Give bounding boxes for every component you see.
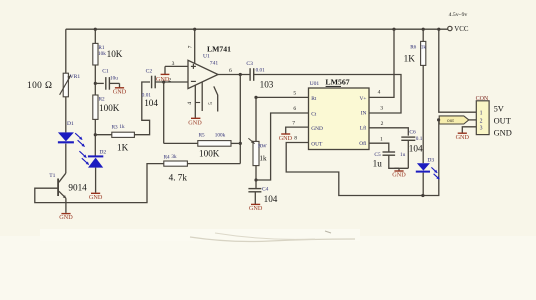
svg-text:7: 7 xyxy=(188,45,194,48)
svg-text:3: 3 xyxy=(172,61,175,67)
value 9014 xyxy=(68,183,87,193)
wire RW top xyxy=(255,97,257,141)
label pin 4 of LM567 xyxy=(378,90,381,96)
junction at RW top xyxy=(254,96,257,99)
IC U01 LM567 body xyxy=(309,88,370,150)
value 100 Ohm xyxy=(27,81,52,91)
pin name IN xyxy=(361,110,367,116)
wire LM567 OUT routing xyxy=(286,122,439,196)
label R5 100k xyxy=(199,133,226,139)
connector pin 2 xyxy=(480,118,483,124)
junction on rail at LM567 V+ drop xyxy=(392,28,395,31)
junction on rail at connector 5V drop xyxy=(437,28,440,31)
label C3 xyxy=(246,61,253,67)
value 1K of R6 xyxy=(404,54,416,64)
wire to C1 xyxy=(95,82,104,84)
svg-text:4. 7k: 4. 7k xyxy=(169,172,188,182)
ground at C4 xyxy=(249,204,263,212)
connector pin 1 xyxy=(480,111,483,117)
svg-text:VCC: VCC xyxy=(454,26,469,33)
ground at op-amp pin 3 xyxy=(156,74,170,82)
potentiometer VR1 xyxy=(60,73,71,97)
value 4.7k xyxy=(169,172,188,182)
wire R6 to D3 xyxy=(422,65,424,163)
junction at R3 tap xyxy=(94,133,97,136)
svg-text:3: 3 xyxy=(480,126,483,132)
svg-text:GND: GND xyxy=(59,214,73,221)
label pin 8 of LM567 xyxy=(294,135,297,141)
svg-text:C3: C3 xyxy=(246,61,253,67)
value 0.1 of C6 xyxy=(416,136,423,142)
svg-text:CON: CON xyxy=(476,96,489,102)
svg-text:OUT: OUT xyxy=(494,116,511,125)
svg-text:10u: 10u xyxy=(110,75,118,81)
svg-text:103: 103 xyxy=(260,79,274,89)
ground at op-amp pin 4 xyxy=(188,118,202,126)
svg-text:4.5v~9v: 4.5v~9v xyxy=(449,12,468,18)
label 5V xyxy=(494,104,504,113)
LED D3 xyxy=(416,163,430,171)
svg-text:VR1: VR1 xyxy=(70,74,81,80)
svg-text:R4: R4 xyxy=(164,155,170,161)
wire R3 left lead xyxy=(95,134,112,136)
value 1u of C5 xyxy=(373,158,383,168)
value 0.01 of C2 xyxy=(142,92,151,98)
label CON xyxy=(476,96,489,102)
pin name V+ xyxy=(359,96,366,102)
ground at C5 C6 joint xyxy=(392,168,406,178)
label 4.5v~9v xyxy=(449,12,468,18)
svg-text:D1: D1 xyxy=(67,121,74,127)
svg-text:2: 2 xyxy=(381,121,384,127)
label R4 3k xyxy=(164,154,177,160)
value 100K of R5 xyxy=(199,148,220,158)
wire LM567 V+ to rail xyxy=(369,29,394,97)
svg-text:1K: 1K xyxy=(117,143,129,153)
svg-text:LM567: LM567 xyxy=(325,78,349,87)
pin name GND xyxy=(311,126,323,132)
svg-text:C5: C5 xyxy=(374,152,381,158)
svg-text:5V: 5V xyxy=(494,104,504,113)
wire LM567 GND pin xyxy=(286,127,309,134)
value 100K xyxy=(99,103,120,113)
wire op-amp output xyxy=(218,74,250,76)
svg-text:C2: C2 xyxy=(146,69,153,75)
label pin 2 xyxy=(168,77,171,83)
svg-text:100 Ω: 100 Ω xyxy=(27,81,52,91)
ground at C1 xyxy=(113,88,127,96)
svg-text:R6: R6 xyxy=(410,44,416,50)
wire R2 to D2 xyxy=(94,119,96,156)
value 10K xyxy=(107,49,123,59)
svg-text:GND: GND xyxy=(188,119,202,126)
label D3 xyxy=(427,158,434,164)
svg-text:D3: D3 xyxy=(427,158,434,164)
label RW xyxy=(258,143,267,149)
photodiode D2 xyxy=(88,156,103,167)
label D2 xyxy=(99,149,106,155)
svg-text:104: 104 xyxy=(144,98,158,108)
wire Ofl to C5 xyxy=(369,143,389,152)
svg-text:0.01: 0.01 xyxy=(256,67,265,73)
ground at T1 emitter xyxy=(59,214,73,222)
label VR1 xyxy=(70,74,81,80)
svg-text:Lfl: Lfl xyxy=(360,124,367,131)
junction at D3 bottom xyxy=(421,194,424,197)
value 0.01 of C3 xyxy=(256,67,265,73)
wire C5 down to ground joint xyxy=(389,155,409,168)
svg-text:1K: 1K xyxy=(404,54,416,64)
wire R4 right lead xyxy=(187,163,240,165)
value 1u small xyxy=(400,152,406,158)
svg-text:GND: GND xyxy=(392,172,406,179)
svg-text:1k: 1k xyxy=(421,44,427,50)
label C1 xyxy=(102,68,109,74)
wire Rt pin xyxy=(256,96,309,98)
label R1 xyxy=(98,45,104,51)
svg-text:Ct: Ct xyxy=(311,111,317,117)
svg-text:R5: R5 xyxy=(199,133,205,139)
value 103 xyxy=(260,79,274,89)
label C5 xyxy=(374,152,381,158)
wire Ct pin xyxy=(256,113,309,180)
svg-text:OUT: OUT xyxy=(311,142,323,148)
label pin 6 of LM567 xyxy=(293,106,296,112)
label D1 xyxy=(67,121,74,127)
op-amp pin 5 stub xyxy=(214,86,218,111)
label pin 3 of LM567 xyxy=(380,106,383,112)
svg-text:741: 741 xyxy=(210,60,219,66)
svg-text:4: 4 xyxy=(378,90,381,96)
svg-text:V+: V+ xyxy=(359,96,366,102)
svg-text:5: 5 xyxy=(293,90,296,96)
svg-text:Ofl: Ofl xyxy=(359,140,367,147)
svg-text:R3: R3 xyxy=(112,125,118,131)
svg-text:GND: GND xyxy=(494,129,512,138)
svg-text:8: 8 xyxy=(294,135,297,141)
label R2 xyxy=(99,97,105,103)
wire rail to R6 xyxy=(422,29,424,41)
label OUT xyxy=(494,116,511,125)
svg-text:C1: C1 xyxy=(102,68,109,74)
op-amp U1 LM741 xyxy=(188,60,218,88)
label T1 xyxy=(49,173,55,179)
value 104 of C4 xyxy=(264,194,278,204)
op-amp pin 4 to ground xyxy=(195,85,200,118)
svg-text:3: 3 xyxy=(380,106,383,112)
wire VR1 to D1 xyxy=(65,97,67,133)
junction on rail at R6 xyxy=(422,28,425,31)
label pin 6 xyxy=(229,68,232,74)
label U1 xyxy=(203,54,210,60)
svg-text:5: 5 xyxy=(208,102,214,105)
junction at op-amp inverting input xyxy=(162,80,165,83)
resistor R3 xyxy=(112,132,135,137)
net label out arrow xyxy=(439,116,469,124)
svg-text:Rt: Rt xyxy=(311,96,317,102)
svg-text:GND: GND xyxy=(311,126,323,132)
wire R3 to C2 zigzag xyxy=(134,82,150,135)
potentiometer RW xyxy=(248,138,259,165)
svg-text:1: 1 xyxy=(480,111,483,117)
label pin 1 of LM567 xyxy=(380,137,383,143)
svg-text:C4: C4 xyxy=(262,186,269,192)
faint lighter band at bottom xyxy=(0,236,536,300)
svg-text:RW: RW xyxy=(258,143,267,149)
wire C1 to ground xyxy=(109,83,119,87)
capacitor C2 xyxy=(152,76,156,89)
label R6 1k xyxy=(410,44,426,50)
wire C6 down xyxy=(407,140,409,168)
label pin 5 xyxy=(208,102,214,105)
capacitor C4 xyxy=(248,189,261,192)
svg-text:2: 2 xyxy=(480,118,483,124)
wire rail to connector 5V xyxy=(439,29,477,112)
svg-text:6: 6 xyxy=(293,106,296,112)
svg-text:U01: U01 xyxy=(310,81,320,87)
svg-text:R2: R2 xyxy=(99,97,105,103)
resistor R2 xyxy=(93,95,98,119)
wire D1 to T1 collector xyxy=(65,144,67,174)
svg-text:U1: U1 xyxy=(203,54,210,60)
D2 incident arrows xyxy=(79,151,88,164)
pin name Rt xyxy=(311,96,317,102)
svg-text:4: 4 xyxy=(187,102,193,105)
wire connector pin 3 to ground xyxy=(462,127,476,133)
svg-text:C6: C6 xyxy=(409,129,416,135)
svg-text:3k: 3k xyxy=(171,154,177,160)
pin name Lfl xyxy=(360,124,367,131)
label pin 2 of LM567 xyxy=(381,121,384,127)
wire D3 to OUT net xyxy=(422,173,424,196)
svg-text:GND: GND xyxy=(89,194,103,201)
svg-text:GND: GND xyxy=(156,76,170,83)
wire R1 to R2 xyxy=(94,65,96,95)
value 10u xyxy=(110,75,118,81)
svg-text:100K: 100K xyxy=(99,103,120,113)
svg-text:6: 6 xyxy=(229,68,232,74)
wire Lfl to C6 xyxy=(369,128,408,136)
transistor T1 xyxy=(58,173,66,198)
svg-text:9014: 9014 xyxy=(68,183,87,193)
wire op-amp pin 3 xyxy=(165,66,188,74)
wire VCC top rail xyxy=(66,28,448,30)
label pin 5 of LM567 xyxy=(293,90,296,96)
value 1K xyxy=(117,143,129,153)
label LM567 xyxy=(325,78,349,87)
svg-text:1u: 1u xyxy=(400,152,406,158)
pin name Ofl xyxy=(359,140,367,147)
value 10k small xyxy=(98,51,106,57)
label pin 3 xyxy=(172,61,175,67)
resistor R1 xyxy=(93,43,98,65)
label GND pin3 xyxy=(494,129,512,138)
ground at LM567 pin 7 xyxy=(279,134,293,142)
wire R5 right lead xyxy=(231,142,240,144)
ground at connector xyxy=(456,133,470,141)
junction at C1 tap xyxy=(94,82,97,85)
junction at output feedback xyxy=(239,73,242,76)
label pin 7 xyxy=(188,45,194,48)
svg-text:104: 104 xyxy=(409,144,423,154)
svg-text:GND: GND xyxy=(249,205,263,212)
wire C4 to ground xyxy=(254,192,256,204)
svg-text:GND: GND xyxy=(456,134,470,141)
junction at out arrow xyxy=(437,118,440,121)
wire arrow to connector pin 2 xyxy=(469,119,477,121)
D1 emission arrows xyxy=(75,133,84,146)
value 104 of C2 xyxy=(144,98,158,108)
junction at RW bottom xyxy=(254,178,257,181)
svg-text:0.1: 0.1 xyxy=(416,136,423,142)
label 741 xyxy=(210,60,219,66)
svg-text:LM741: LM741 xyxy=(207,44,231,53)
capacitor C1 xyxy=(106,77,110,90)
wire feedback column xyxy=(239,75,241,164)
svg-text:7: 7 xyxy=(292,121,295,127)
svg-text:104: 104 xyxy=(264,194,278,204)
pin name OUT xyxy=(311,142,323,148)
op-amp pin 1 stub xyxy=(201,82,203,111)
value 1k of RW xyxy=(259,154,267,162)
label C6 xyxy=(409,129,416,135)
label C2 xyxy=(146,69,153,75)
label pin 7 of LM567 xyxy=(292,121,295,127)
wire D2 to ground xyxy=(95,168,97,193)
wire rail to VR1 xyxy=(65,29,67,73)
svg-text:IN: IN xyxy=(361,110,367,116)
value 104 of C6 xyxy=(409,144,423,154)
svg-text:GND: GND xyxy=(279,135,293,142)
svg-text:1k: 1k xyxy=(119,124,125,130)
pin name Ct xyxy=(311,111,317,117)
wire C3 to LM567 IN xyxy=(254,75,401,114)
VCC terminal xyxy=(448,26,469,33)
wire inverting node down xyxy=(163,82,165,143)
svg-text:100k: 100k xyxy=(215,133,226,139)
junction feedback R5 xyxy=(239,142,242,145)
svg-text:10k: 10k xyxy=(98,51,106,57)
D3 emission arrows xyxy=(431,167,439,179)
connector pin 3 xyxy=(480,126,483,132)
svg-text:D2: D2 xyxy=(99,149,106,155)
wire T1 emitter to ground xyxy=(65,198,67,213)
wire T1 base loop xyxy=(35,164,164,203)
wire rail to R1 xyxy=(94,29,96,43)
capacitor C3 xyxy=(250,68,254,81)
connector CON body xyxy=(476,101,489,135)
wire C2 to op-amp pin 2 xyxy=(155,81,188,83)
junction on rail at op-amp pin 7 xyxy=(193,28,196,31)
label C4 xyxy=(262,186,269,192)
capacitor C6 xyxy=(401,137,415,140)
label LM741 xyxy=(207,44,231,53)
ground at D2 xyxy=(89,193,103,201)
junction on rail at R1 column xyxy=(94,28,97,31)
svg-text:1: 1 xyxy=(380,137,383,143)
svg-text:T1: T1 xyxy=(49,173,55,179)
wire R5 left lead xyxy=(164,142,198,144)
resistor R6 xyxy=(421,41,426,65)
label pin 4 xyxy=(187,102,193,105)
svg-text:1u: 1u xyxy=(373,158,383,168)
label U01 xyxy=(310,81,320,87)
label R3 1k xyxy=(112,124,125,130)
resistor R5 xyxy=(198,141,231,147)
resistor R4 xyxy=(164,161,188,166)
wire RW bottom xyxy=(255,166,257,188)
svg-text:out: out xyxy=(447,118,454,124)
wire op-amp pin 7 to rail xyxy=(194,29,196,63)
capacitor C5 xyxy=(383,152,396,155)
svg-text:GND: GND xyxy=(113,88,127,95)
svg-text:10K: 10K xyxy=(107,49,123,59)
LED D1 xyxy=(58,132,74,142)
svg-text:1k: 1k xyxy=(259,154,267,162)
svg-text:100K: 100K xyxy=(199,148,220,158)
